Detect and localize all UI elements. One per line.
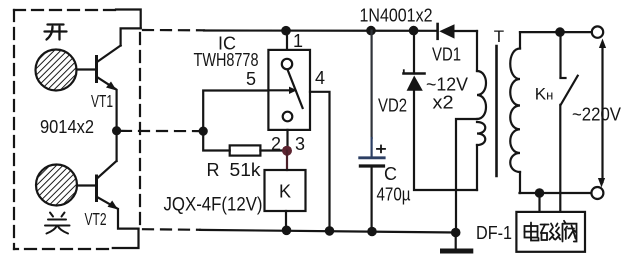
label guan (close) hanzi <box>45 213 70 234</box>
svg-text:~12V: ~12V <box>426 75 468 95</box>
terminal bottom right <box>591 187 603 199</box>
svg-text:2: 2 <box>271 134 281 154</box>
svg-text:1N4001x2: 1N4001x2 <box>360 6 433 26</box>
transformer T core <box>495 46 498 176</box>
wire bottom rail solid <box>200 230 456 233</box>
svg-text:1: 1 <box>293 31 303 51</box>
svg-text:DF-1: DF-1 <box>476 223 512 243</box>
svg-text:VD2: VD2 <box>378 96 407 116</box>
wire capacitor top lead <box>371 31 373 138</box>
svg-text:TWH8778: TWH8778 <box>194 50 259 70</box>
wire bottom rail dashed <box>143 228 200 231</box>
wire K to bottom rail <box>285 211 287 230</box>
svg-text:3: 3 <box>295 134 305 154</box>
wire top rail solid <box>204 29 437 31</box>
touch plate E2 (hatched circle, OFF) <box>36 165 77 206</box>
node Kn top junction <box>555 27 565 37</box>
svg-text:Kн: Kн <box>535 85 554 104</box>
IC internal top contact <box>282 59 292 69</box>
svg-text:R: R <box>207 160 220 180</box>
wire pins 2,3 down <box>286 130 288 151</box>
ci <box>541 224 549 226</box>
wire bottom right rail <box>520 192 592 194</box>
enclosure dashed box top-right solid corner <box>116 10 141 29</box>
diode VD2 <box>404 70 425 91</box>
solenoid valve DF-1 box <box>516 212 585 252</box>
svg-text:VT2: VT2 <box>85 209 107 229</box>
wire pin 1 <box>286 31 288 50</box>
fa <box>562 224 564 242</box>
svg-text:9014x2: 9014x2 <box>40 117 94 137</box>
node ground junction <box>451 228 461 238</box>
wire VT2 emitter to bottom rail <box>118 209 139 229</box>
wire dashed emitter line to pin5 node <box>121 130 199 132</box>
terminal top right <box>592 26 603 37</box>
node VD2 top junction <box>409 26 419 36</box>
label kai (open) hanzi <box>45 25 67 40</box>
svg-text:JQX-4F(12V): JQX-4F(12V) <box>164 194 263 216</box>
switch Kn <box>560 32 577 212</box>
svg-text:5: 5 <box>246 69 256 89</box>
ground <box>443 233 471 252</box>
transformer T secondary winding top <box>477 31 486 119</box>
capacitor C 470u (polarized) <box>360 146 385 167</box>
svg-text:VD1: VD1 <box>432 45 461 65</box>
transformer T center tap <box>456 119 477 233</box>
transformer T secondary winding bottom <box>477 122 485 190</box>
wire VD2 anode down and right to winding <box>414 91 477 190</box>
node capacitor top junction <box>366 26 376 36</box>
220V source arrow <box>598 39 606 188</box>
node K bottom junction <box>282 226 292 236</box>
wire VT1 emitter down <box>115 90 117 131</box>
relay coil K box <box>265 170 306 211</box>
enclosure dashed box top edge <box>14 9 116 11</box>
transistor VT1 <box>97 46 121 91</box>
wire solenoid left lead <box>538 193 540 212</box>
IC internal control arrow <box>269 87 297 94</box>
enclosure dashed box bottom edge <box>14 248 108 250</box>
wire pin 4 <box>310 92 330 231</box>
wire capacitor bottom lead <box>371 166 373 232</box>
svg-text:51k: 51k <box>230 160 262 180</box>
svg-text:x2: x2 <box>433 93 454 113</box>
node emitter/collector junction <box>112 126 121 135</box>
enclosure dashed box left edge <box>13 10 15 249</box>
wire node to relay coil K <box>286 151 288 170</box>
node capacitor bottom junction <box>367 227 377 237</box>
node pin4 bottom junction <box>325 226 335 236</box>
svg-text:C: C <box>384 164 397 184</box>
transformer T primary winding <box>510 32 520 193</box>
wire base VT2 <box>77 184 96 186</box>
resistor R 51k <box>230 145 261 155</box>
op IC U1 TWH8778 box <box>268 50 310 130</box>
wire VD2 top lead <box>413 31 415 74</box>
IC internal bottom contact <box>283 112 293 122</box>
wire top right rail <box>520 31 592 33</box>
dian <box>525 226 538 238</box>
wire base VT1 <box>77 68 96 70</box>
wire dashed top rail to IC <box>143 29 204 31</box>
wire node to resistor R <box>203 131 230 150</box>
svg-text:~220V: ~220V <box>572 105 621 125</box>
enclosure dashed box right edge <box>139 33 141 224</box>
node pin1 junction <box>281 26 291 36</box>
svg-text:VT1: VT1 <box>91 91 113 111</box>
wire VT1 collector up to rail <box>121 28 141 45</box>
svg-text:K: K <box>279 182 291 202</box>
wire VT2 collector up <box>115 131 117 161</box>
transistor VT2 <box>97 161 119 210</box>
node solenoid junction <box>535 188 545 198</box>
diode VD1 <box>438 24 477 39</box>
svg-text:470µ: 470µ <box>377 185 411 205</box>
label diancifa (solenoid valve) hanzi <box>525 221 577 242</box>
wire R to pin2/3 node <box>260 149 287 151</box>
enclosure dashed box bottom-right solid corner <box>113 229 139 248</box>
svg-text:4: 4 <box>315 68 325 88</box>
IC internal switch arm <box>288 70 303 109</box>
touch plate E1 (hatched circle, ON) <box>36 50 77 91</box>
wire pin 5 <box>203 91 268 132</box>
svg-text:T: T <box>494 27 504 46</box>
node pins 2-3 junction (dark red) <box>282 146 292 156</box>
node pin5/R junction <box>199 127 208 136</box>
